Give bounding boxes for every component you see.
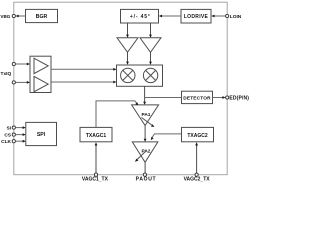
wire phase shifter to LO buffer 2 (arrow down) [149, 23, 152, 38]
wire LO buffer 1 to mixer (arrow down) [126, 52, 129, 65]
mixer block [117, 65, 163, 86]
pin VAGC2_TX [195, 173, 198, 176]
block SPI [26, 122, 57, 145]
svg-text:TXAGC2: TXAGC2 [187, 133, 208, 139]
block phase shifter +/- 45deg [121, 9, 159, 23]
wire TXAGC2 control to PA2 (arrow) [151, 134, 182, 140]
svg-text:+/- 45°: +/- 45° [130, 14, 151, 20]
block DETECTOR [182, 91, 213, 103]
block BGR [26, 9, 58, 22]
pin TxI [12, 62, 15, 65]
op-amp PA2 (triangle down) [132, 142, 158, 162]
wire CLK to SPI (arrow right) [15, 140, 25, 143]
svg-text:VAGC2_TX: VAGC2_TX [184, 177, 211, 183]
wire LOIN pin to LODRIVE (arrow left) [211, 15, 225, 18]
svg-text:TxIQ: TxIQ [1, 71, 12, 77]
wire SI to SPI (arrow right) [15, 126, 25, 129]
PA1 gain arrow [142, 118, 155, 128]
wire DETECTOR to DED pin (arrow right) [213, 96, 226, 99]
wire LO buffer 2 to mixer (arrow down) [149, 52, 152, 65]
wire BGR to VBG pin (arrow left) [16, 15, 26, 18]
mixer I (circle with X) [121, 68, 135, 82]
pin VBG [12, 14, 15, 17]
pin CS [12, 133, 15, 136]
LO buffer amp 2 (triangle down) [140, 38, 161, 53]
mixer Q (circle with X) [143, 68, 157, 82]
svg-text:SPI: SPI [37, 132, 46, 138]
pin TxQ [12, 81, 15, 84]
svg-text:TXAGC1: TXAGC1 [86, 133, 107, 139]
block LODRIVE [181, 9, 211, 23]
wire LODRIVE to phase shifter (arrow left) [159, 15, 181, 18]
I buffer amp (triangle right) [34, 58, 48, 73]
svg-text:SI: SI [6, 125, 11, 131]
wire PA2 to PAOUT pin [144, 162, 146, 173]
input buffer block [30, 56, 51, 92]
wire TxQ pin to input buffer (arrow right) [15, 81, 30, 84]
svg-text:LODRIVE: LODRIVE [184, 14, 209, 20]
wire TXAGC1 control to PA1 (arrow) [96, 101, 138, 128]
pin SI [12, 126, 15, 129]
svg-text:VBG: VBG [0, 14, 10, 19]
pin CLK [12, 140, 15, 143]
wire Q buffer to mixer (arrow right) [51, 81, 117, 84]
wire phase shifter to LO buffer 1 (arrow down) [126, 23, 129, 38]
Q buffer amp (triangle right) [34, 76, 48, 91]
svg-text:CS: CS [4, 132, 11, 138]
svg-text:ED(P/N): ED(P/N) [229, 95, 249, 101]
wire I buffer to mixer (arrow right) [51, 68, 117, 71]
LO buffer amp 1 (triangle down) [117, 38, 138, 53]
pin LOIN [226, 14, 229, 17]
svg-text:CLK: CLK [1, 139, 11, 145]
block TXAGC1 [80, 127, 112, 141]
block TXAGC2 [182, 127, 214, 141]
op-amp PA1 (triangle down) [132, 105, 159, 126]
wire mixer output to PA1 (arrow down) [143, 86, 146, 105]
wire VAGC2_TX pin to TXAGC2 (arrow up) [195, 142, 198, 173]
svg-text:BGR: BGR [36, 14, 48, 20]
pin VAGC1_TX [94, 173, 97, 176]
svg-text:VAGC1_TX: VAGC1_TX [82, 177, 109, 183]
svg-text:DETECTOR: DETECTOR [183, 95, 211, 101]
wire CS to SPI (arrow right) [15, 133, 25, 136]
wire node to DETECTOR [145, 97, 182, 99]
wire TxI pin to input buffer (arrow right) [15, 63, 30, 66]
svg-text:PA1: PA1 [142, 112, 151, 118]
wire VAGC1_TX pin to TXAGC1 (arrow up) [95, 142, 98, 173]
svg-text:PAOUT: PAOUT [136, 177, 157, 183]
pin PAOUT [143, 173, 146, 176]
pin DED(P/N) [226, 96, 229, 99]
PA2 gain arrow [135, 151, 147, 162]
wire PA1 to PA2 (arrow down) [144, 126, 147, 142]
svg-text:LOIN: LOIN [230, 14, 242, 20]
chip boundary border [14, 2, 227, 175]
